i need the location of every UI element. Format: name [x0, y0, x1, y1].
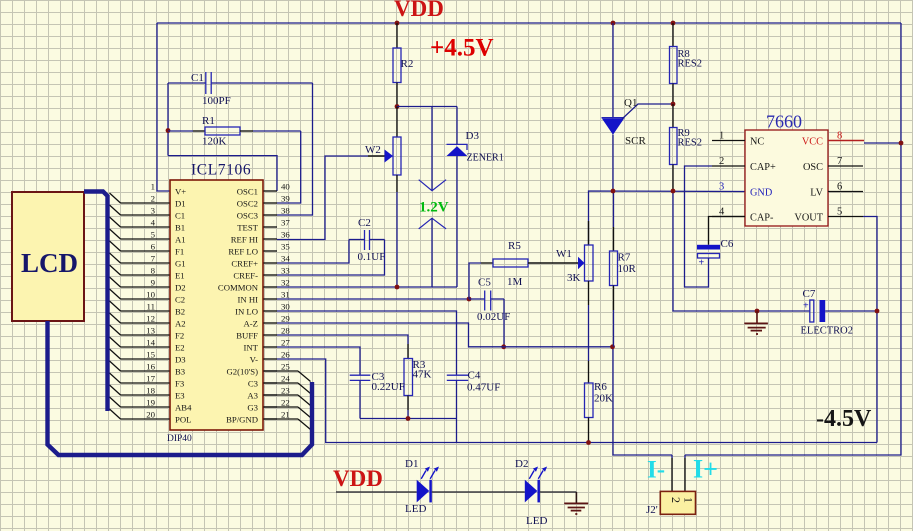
power port VDD top: [394, 0, 444, 21]
svg-text:39: 39: [281, 194, 290, 204]
pin 1 NC of 7660: [712, 131, 764, 148]
svg-text:2: 2: [719, 156, 724, 167]
wire C2 right to CREF-: [277, 240, 385, 276]
svg-text:A3: A3: [247, 391, 258, 401]
svg-text:32: 32: [281, 278, 290, 288]
wire C1 right drop to OSC3: [277, 83, 313, 215]
junction R8 R9 gate node: [671, 102, 676, 107]
wire W2 wiper to REF HI: [277, 156, 368, 240]
pin 14 E2: [110, 337, 185, 353]
node 1.2V reference marker: [419, 107, 449, 288]
potentiometer W1 3K: [528, 221, 593, 305]
resistor R2: [393, 23, 413, 107]
pin 3 C1: [110, 205, 186, 221]
pin 40 OSC1: [237, 182, 291, 197]
svg-text:11: 11: [147, 302, 155, 312]
capacitor C3 0.22UF: [277, 347, 405, 419]
svg-text:COMMON: COMMON: [218, 283, 259, 293]
svg-text:IN LO: IN LO: [235, 307, 258, 317]
svg-text:16: 16: [146, 362, 155, 372]
resistor R3 47K: [277, 335, 432, 419]
svg-text:C2: C2: [358, 217, 371, 229]
pin 19 AB4: [110, 397, 193, 413]
svg-text:36: 36: [281, 230, 290, 240]
svg-text:F3: F3: [175, 379, 184, 389]
svg-text:38: 38: [281, 206, 290, 216]
pin 27 INT: [244, 338, 291, 353]
wire W1 bottom to R6: [588, 305, 590, 361]
svg-text:R2: R2: [401, 58, 414, 70]
LCD display block: [12, 192, 84, 321]
svg-text:8: 8: [151, 266, 156, 276]
svg-text:2: 2: [669, 497, 683, 503]
svg-text:CAP+: CAP+: [750, 162, 776, 173]
svg-text:CAP-: CAP-: [750, 213, 774, 224]
svg-text:BUFF: BUFF: [236, 331, 258, 341]
svg-text:REF LO: REF LO: [228, 247, 258, 257]
svg-text:7660: 7660: [766, 112, 802, 132]
resistor R1 120K: [168, 115, 301, 148]
connector J2: [646, 491, 696, 516]
svg-text:A2: A2: [175, 319, 186, 329]
pin 31 IN HI: [237, 290, 289, 305]
svg-text:R5: R5: [508, 240, 521, 252]
pin 2 CAP+ of 7660: [712, 156, 776, 173]
svg-text:V+: V+: [175, 187, 186, 197]
pin 22 G3: [247, 398, 310, 418]
junction ground tap on rail: [755, 309, 760, 314]
svg-text:VOUT: VOUT: [794, 213, 823, 224]
svg-text:29: 29: [281, 314, 290, 324]
pin 28 BUFF: [236, 326, 290, 341]
wire C4 bottom to V- rail: [456, 419, 458, 443]
svg-text:DIP40: DIP40: [167, 434, 192, 444]
svg-text:6: 6: [151, 242, 156, 252]
svg-text:D1: D1: [175, 199, 186, 209]
pin 4 CAP- of 7660: [712, 207, 774, 224]
svg-text:21: 21: [281, 410, 290, 420]
diode D3 ZENER1: [447, 107, 504, 288]
svg-text:37: 37: [281, 218, 290, 228]
junction R7 bottom on A-Z rail: [610, 344, 615, 349]
svg-text:D2: D2: [515, 458, 528, 470]
junction R3 bottom: [406, 416, 411, 421]
svg-text:LED: LED: [526, 515, 547, 527]
node label I+: [693, 455, 718, 484]
pin 15 D3: [110, 349, 186, 365]
wire C3 C4 bottom rail: [360, 418, 457, 420]
svg-text:47K: 47K: [413, 369, 432, 381]
pin 36 REF HI: [231, 230, 291, 245]
wire I- segment from R7 branch: [613, 347, 672, 456]
node label -4.5V: [816, 406, 872, 432]
wire V+ from VDD rail to ICL7106 pin 1: [157, 23, 170, 191]
pin 20 POL: [110, 409, 192, 425]
wire D2 to ground: [540, 491, 577, 493]
svg-text:E1: E1: [175, 271, 185, 281]
junction R9 bottom on GND rail: [671, 189, 676, 194]
svg-text:LCD: LCD: [21, 248, 78, 278]
svg-text:23: 23: [281, 386, 290, 396]
junction R8 top on VDD rail: [671, 21, 676, 26]
svg-text:0.47UF: 0.47UF: [467, 382, 500, 394]
svg-text:-4.5V: -4.5V: [816, 406, 872, 432]
svg-text:B3: B3: [175, 367, 185, 377]
capacitor C2 0.1UF: [349, 217, 385, 263]
svg-text:24: 24: [281, 374, 290, 384]
pin 37 TEST: [237, 218, 290, 233]
pin 38 OSC3: [237, 206, 291, 221]
node label I-: [647, 457, 665, 484]
svg-text:18: 18: [146, 386, 155, 396]
svg-text:C5: C5: [478, 277, 491, 289]
wire I+ drop to J2 pin 1: [684, 455, 686, 492]
pin 33 CREF-: [233, 266, 290, 281]
pin 29 A-Z: [244, 314, 291, 329]
svg-text:1: 1: [719, 131, 724, 142]
bus from LCD bottom to ICL7106 right pins: [48, 321, 313, 455]
svg-text:C6: C6: [721, 238, 734, 250]
pin 4 B1: [110, 217, 186, 233]
svg-text:RES2: RES2: [678, 138, 703, 149]
svg-text:R7: R7: [618, 252, 631, 264]
pin 23 A3: [247, 386, 310, 406]
svg-text:REF HI: REF HI: [231, 235, 258, 245]
svg-text:INT: INT: [244, 343, 259, 353]
transistor Q1 SCR: [602, 23, 674, 191]
wire IN HI pin 31: [277, 298, 469, 300]
wire VDD top rail: [157, 22, 901, 24]
ground LED return: [564, 492, 588, 514]
svg-text:V-: V-: [250, 355, 258, 365]
svg-text:I+: I+: [693, 455, 718, 484]
power port VDD bottom: [333, 466, 383, 491]
svg-text:NC: NC: [750, 137, 764, 148]
svg-text:LED: LED: [405, 503, 426, 515]
node label +4.5V: [430, 35, 494, 62]
svg-text:3K: 3K: [567, 272, 581, 284]
pin 7 G1: [110, 253, 186, 269]
wire C7 right to VOUT node: [825, 310, 877, 312]
pin 11 B2: [110, 301, 186, 317]
svg-text:1M: 1M: [507, 276, 523, 288]
svg-text:G2(10'S): G2(10'S): [227, 367, 259, 377]
pin 8 VCC of 7660: [802, 131, 864, 148]
svg-text:SCR: SCR: [625, 135, 646, 147]
pin 2 D1: [110, 193, 186, 209]
svg-text:0.22UF: 0.22UF: [372, 381, 405, 393]
svg-text:40: 40: [281, 182, 290, 192]
svg-text:C3: C3: [248, 379, 258, 389]
wire GND rail of 7660 / SCR cathode net: [589, 191, 746, 245]
pin 30 IN LO: [235, 302, 290, 317]
junction R2 bottom node: [395, 104, 400, 109]
svg-text:I-: I-: [647, 457, 665, 484]
svg-text:RES2: RES2: [678, 59, 703, 70]
wire 7660 GND down to analog ground rail: [673, 191, 810, 311]
svg-text:120K: 120K: [202, 136, 227, 148]
pin 35 REF LO: [228, 242, 290, 257]
svg-text:C1: C1: [175, 211, 185, 221]
pin 3 GND of 7660: [719, 182, 773, 199]
svg-text:OSC3: OSC3: [237, 211, 258, 221]
svg-text:35: 35: [281, 242, 290, 252]
svg-text:+: +: [803, 301, 809, 312]
svg-text:5: 5: [151, 230, 156, 240]
svg-text:W2: W2: [365, 144, 381, 156]
wire V- rail -4.5V bottom: [277, 359, 877, 443]
junction R2 top on VDD rail: [395, 21, 400, 26]
pin 10 C2: [110, 289, 186, 305]
pin 26 V-: [250, 350, 291, 365]
svg-text:+: +: [699, 258, 705, 269]
svg-text:ELECTRO2: ELECTRO2: [801, 326, 854, 337]
svg-text:E3: E3: [175, 391, 185, 401]
svg-text:3: 3: [151, 206, 156, 216]
svg-text:VDD: VDD: [333, 466, 383, 491]
svg-text:Q1: Q1: [624, 97, 637, 109]
svg-text:C1: C1: [191, 72, 204, 84]
svg-text:GND: GND: [750, 188, 773, 199]
svg-text:OSC1: OSC1: [237, 187, 258, 197]
svg-text:D3: D3: [466, 130, 480, 142]
wire C5 right drop: [503, 299, 505, 347]
pin 16 B3: [110, 361, 186, 377]
svg-text:B1: B1: [175, 223, 185, 233]
svg-text:10R: 10R: [618, 263, 637, 275]
wire VDD rail right drop to VCC and I+: [685, 23, 901, 455]
diode D2 LED: [515, 458, 547, 527]
svg-text:22: 22: [281, 398, 290, 408]
svg-text:A-Z: A-Z: [244, 319, 258, 329]
svg-text:0.02UF: 0.02UF: [477, 311, 510, 323]
svg-text:R6: R6: [594, 381, 607, 393]
wire D1 to D2: [432, 491, 525, 493]
svg-text:15: 15: [146, 350, 155, 360]
svg-text:R1: R1: [202, 115, 215, 127]
svg-text:1.2V: 1.2V: [419, 200, 449, 216]
svg-text:B2: B2: [175, 307, 185, 317]
svg-text:4: 4: [151, 218, 156, 228]
resistor R5 1M: [469, 240, 528, 299]
pin 18 E3: [110, 385, 185, 401]
svg-text:28: 28: [281, 326, 290, 336]
svg-text:F1: F1: [175, 247, 184, 257]
svg-text:33: 33: [281, 266, 290, 276]
svg-text:13: 13: [146, 326, 155, 336]
svg-text:30: 30: [281, 302, 290, 312]
pin 24 C3: [248, 374, 311, 394]
wire VCC of 7660 to VDD vertical: [864, 142, 901, 144]
pin 21 BP/GND: [226, 410, 310, 430]
wire C2 left to CREF+: [277, 240, 349, 264]
capacitor C5 0.02UF: [469, 277, 510, 324]
svg-text:TEST: TEST: [237, 223, 258, 233]
svg-text:17: 17: [146, 374, 155, 384]
pin 25 G2(10'S): [227, 362, 311, 382]
pin 5 A1: [110, 229, 186, 245]
svg-text:9: 9: [151, 278, 156, 288]
svg-text:VCC: VCC: [802, 137, 823, 148]
resistor R6 20K: [585, 361, 614, 443]
svg-text:A1: A1: [175, 235, 186, 245]
svg-text:D1: D1: [405, 458, 418, 470]
svg-text:IN HI: IN HI: [237, 295, 258, 305]
svg-text:6: 6: [837, 182, 842, 193]
svg-text:31: 31: [281, 290, 290, 300]
svg-text:AB4: AB4: [175, 403, 192, 413]
wire OSC1 riser: [168, 156, 277, 191]
svg-text:OSC: OSC: [803, 162, 823, 173]
svg-text:26: 26: [281, 350, 290, 360]
pin 6 F1: [110, 241, 185, 257]
svg-text:34: 34: [281, 254, 290, 264]
svg-text:7: 7: [151, 254, 156, 264]
wire C1 left drop: [167, 83, 169, 156]
svg-text:12: 12: [146, 314, 155, 324]
resistor R8 RES2: [670, 23, 703, 104]
pin 17 F3: [110, 373, 185, 389]
svg-text:10: 10: [146, 290, 155, 300]
pin 5 VOUT of 7660: [794, 207, 863, 224]
svg-text:5: 5: [837, 207, 842, 218]
op-amp U ICL7106 DIP40 body: [167, 162, 263, 445]
svg-text:20: 20: [146, 410, 155, 420]
potentiometer W2: [365, 107, 401, 288]
svg-text:W1: W1: [556, 248, 572, 260]
wire R1 right drop to OSC2: [277, 131, 301, 203]
svg-text:1: 1: [682, 497, 696, 503]
svg-text:1: 1: [151, 182, 155, 192]
svg-text:C4: C4: [468, 370, 481, 382]
svg-text:ZENER1: ZENER1: [467, 153, 504, 164]
pin 34 CREF+: [231, 254, 290, 269]
pin 39 OSC2: [237, 194, 291, 209]
svg-text:E2: E2: [175, 343, 185, 353]
wire COMMON rail pin 32: [277, 286, 457, 288]
svg-text:ICL7106: ICL7106: [191, 162, 251, 179]
junction R1 left: [166, 128, 171, 133]
svg-text:G1: G1: [175, 259, 186, 269]
svg-text:G3: G3: [247, 403, 258, 413]
junction VCC node on VDD drop: [899, 141, 904, 146]
resistor R9 RES2: [670, 104, 703, 191]
pin 6 LV of 7660: [810, 182, 863, 199]
pin 13 F2: [110, 325, 185, 341]
pin 7 OSC of 7660: [803, 156, 863, 173]
svg-text:VDD: VDD: [394, 0, 444, 21]
wire I- drop to J2 pin 2: [671, 455, 673, 492]
svg-text:25: 25: [281, 362, 290, 372]
svg-text:20K: 20K: [594, 393, 613, 405]
pin 32 COMMON: [218, 278, 290, 293]
svg-text:F2: F2: [175, 331, 184, 341]
svg-text:J2': J2': [646, 504, 658, 516]
junction W2 bottom on COMMON: [395, 285, 400, 290]
svg-text:C7: C7: [803, 288, 816, 300]
diode D1 LED: [405, 458, 439, 515]
junction VOUT C7 node: [875, 309, 880, 314]
capacitor C4 0.47UF: [447, 370, 501, 419]
ground analog near 7660: [744, 311, 768, 334]
svg-text:LV: LV: [810, 188, 823, 199]
svg-text:0.1UF: 0.1UF: [358, 251, 386, 263]
svg-text:POL: POL: [175, 415, 191, 425]
svg-text:14: 14: [146, 338, 155, 348]
svg-text:BP/GND: BP/GND: [226, 415, 258, 425]
junction SCR top on VDD rail: [611, 21, 616, 26]
wire A-Z pin 29 rail: [277, 323, 613, 347]
capacitor C6 electrolytic: [685, 166, 746, 287]
junction C5 on A-Z rail: [501, 344, 506, 349]
capacitor C1 100PF: [168, 72, 313, 107]
svg-text:D3: D3: [175, 355, 186, 365]
op-amp U2 7660 body: [745, 112, 828, 227]
svg-text:D2: D2: [175, 283, 186, 293]
svg-text:CREF+: CREF+: [231, 259, 258, 269]
resistor R7 10R: [610, 191, 637, 347]
pin 12 A2: [110, 313, 186, 329]
pin 9 D2: [110, 277, 186, 293]
svg-text:100PF: 100PF: [202, 95, 231, 107]
bus from LCD top to ICL7106 left pins: [84, 192, 108, 412]
junction SCR cathode on GND rail: [611, 189, 616, 194]
svg-text:8: 8: [837, 131, 842, 142]
svg-text:27: 27: [281, 338, 290, 348]
pin 1 V+: [151, 182, 187, 197]
svg-text:CREF-: CREF-: [233, 271, 258, 281]
pin 8 E1: [110, 265, 185, 281]
svg-text:19: 19: [146, 398, 155, 408]
svg-text:3: 3: [719, 182, 724, 193]
svg-text:+4.5V: +4.5V: [430, 35, 494, 62]
junction IN HI node: [467, 297, 472, 302]
svg-text:7: 7: [837, 156, 842, 167]
capacitor C7 ELECTRO2: [801, 288, 854, 337]
wire VDD to D1: [336, 491, 417, 493]
wire IN LO pin 30 to C4: [277, 311, 457, 375]
wire VOUT drop joins V- rail: [863, 217, 877, 443]
svg-text:2: 2: [151, 194, 155, 204]
junction R6 bottom on V- rail: [586, 440, 591, 445]
wire R2 bottom to zener branch: [397, 106, 457, 108]
svg-text:OSC2: OSC2: [237, 199, 258, 209]
svg-text:C2: C2: [175, 295, 185, 305]
